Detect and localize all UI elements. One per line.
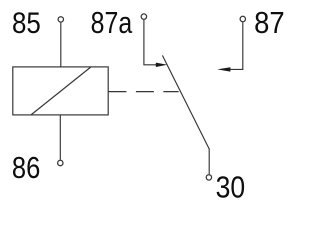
arrowhead: 87 contact pointing at blade — [217, 67, 230, 71]
svg-text:87: 87 — [254, 6, 284, 40]
terminal 86 — [58, 160, 63, 165]
svg-text:85: 85 — [12, 6, 41, 39]
svg-text:87a: 87a — [91, 5, 133, 39]
wire: coil lead to terminal 86 — [59, 115, 61, 160]
terminal 85 — [58, 17, 63, 22]
coil diagonal stroke — [31, 67, 91, 115]
terminal 87 — [240, 16, 245, 21]
wire: blade to terminal 30 — [208, 149, 210, 175]
terminal 87a — [141, 14, 146, 19]
terminal 30 — [206, 175, 211, 180]
switch armature blade (common, from pivot to terminal 30) — [162, 55, 209, 149]
wire: terminal 87a down-lead — [144, 20, 157, 65]
wire: coil lead to terminal 85 — [60, 23, 62, 67]
svg-text:86: 86 — [12, 151, 40, 186]
actuation link (dashed) from coil to armature — [108, 91, 178, 93]
wire: terminal 87 down-lead — [230, 22, 243, 69]
svg-text:30: 30 — [216, 171, 246, 205]
relay coil K1 (box) — [13, 67, 108, 115]
arrowhead: 87a contact pointing at blade — [156, 63, 168, 67]
